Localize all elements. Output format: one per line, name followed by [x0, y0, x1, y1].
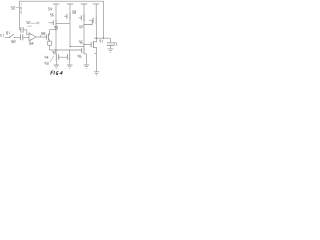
- label 50: [11, 7, 14, 10]
- power VDD T1: [53, 4, 59, 19]
- switch S1: [10, 34, 20, 37]
- label 62: [80, 26, 83, 28]
- transistor M6 (output NMOS): [91, 38, 96, 72]
- transistor M9 (PMOS on tail column): [79, 14, 84, 21]
- wire feedback top rail: [20, 1, 104, 38]
- label 54: [48, 8, 52, 11]
- label 95: [78, 55, 81, 58]
- label 96: [79, 41, 82, 44]
- capacitor CL: [107, 38, 114, 49]
- wire output node: [94, 37, 110, 39]
- wire leader 50 arrow: [16, 7, 19, 9]
- label 93: [45, 62, 48, 65]
- wire M7 drain to output: [95, 24, 97, 38]
- label FIG. 4: [51, 71, 63, 75]
- transistor M4 (NMOS bottom right of pair): [67, 50, 69, 60]
- ground G1: [67, 65, 73, 68]
- node VIN input wire: [5, 36, 10, 38]
- label 86: [42, 32, 45, 35]
- wire A tail to cascode: [70, 46, 84, 48]
- transistor M3 (PMOS mid): [64, 13, 70, 20]
- wire gate tie M4 M5: [59, 56, 68, 58]
- op-amp U1: [29, 33, 36, 41]
- ground G4: [108, 49, 114, 53]
- label 58: [72, 11, 75, 14]
- wire M4 source: [69, 61, 71, 66]
- node tick 86: [40, 35, 42, 37]
- wire M5 source: [55, 61, 57, 66]
- label 81: [7, 32, 10, 35]
- transistor M8 (tail cascode): [82, 47, 87, 65]
- transistor M7 (output PMOS): [89, 16, 96, 24]
- label 82: [12, 40, 15, 43]
- power VDD T2: [67, 4, 73, 13]
- transistor M5 (NMOS bottom left of pair): [56, 50, 59, 61]
- wire node A column: [55, 26, 57, 50]
- wire M3 drain column: [69, 20, 71, 47]
- transistor M1 (input NMOS): [47, 30, 50, 42]
- node tick source: [94, 53, 96, 55]
- label 94: [45, 56, 48, 59]
- label CL: [114, 42, 117, 45]
- wire leader 94: [50, 56, 54, 62]
- label 91: [100, 40, 103, 43]
- power VDD T4: [93, 4, 99, 16]
- label 102 (stacked): [21, 3, 22, 13]
- ground G5: [84, 65, 90, 68]
- label 52 with leader and circle: [27, 21, 39, 26]
- label V1: [0, 34, 3, 37]
- resistor R1 (small box under M1): [48, 41, 52, 50]
- label 56: [50, 14, 53, 16]
- wire mirror tie: [56, 23, 70, 25]
- capacitor C2 (input series cap): [20, 34, 29, 40]
- capacitor C1 (upper feedback cap): [20, 27, 30, 35]
- label 84: [30, 42, 33, 45]
- junction dots: [9, 24, 104, 51]
- wire gate tap to M6: [84, 44, 91, 46]
- wire long tail rail: [50, 49, 82, 51]
- label 90: [54, 26, 57, 29]
- transistor M2 (PMOS left): [49, 19, 56, 26]
- wire gate tie M9 M7: [84, 21, 92, 25]
- power VDD T3: [81, 4, 87, 47]
- ground G3: [94, 72, 100, 75]
- label 92: [53, 51, 56, 54]
- wire M1 drain to node A: [50, 29, 56, 31]
- wire op-amp output: [36, 36, 47, 38]
- ground G2: [54, 65, 60, 68]
